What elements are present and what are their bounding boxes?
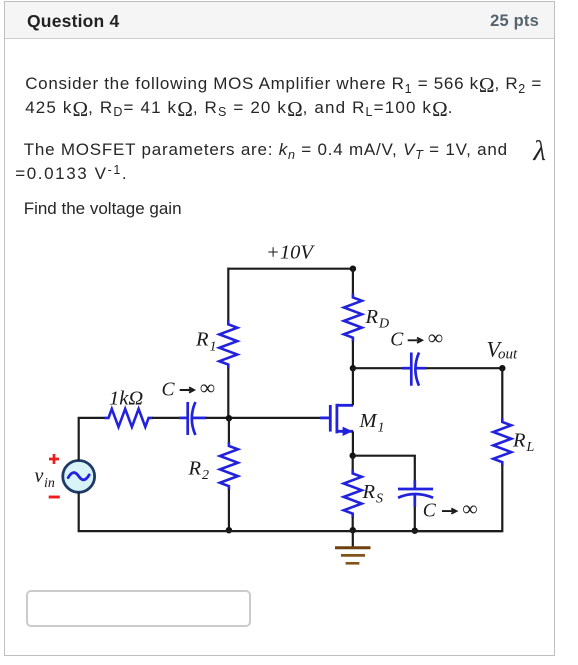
capacitor C input coupling — [179, 402, 207, 435]
label +10V — [266, 242, 315, 264]
svg-text:1: 1 — [378, 421, 385, 436]
wire output cap to Vout — [426, 367, 502, 369]
resistor RS — [352, 456, 354, 470]
svg-text:in: in — [44, 476, 55, 491]
svg-text:R: R — [362, 481, 376, 503]
wire RL bottom — [415, 466, 503, 532]
wire R1 bottom to gate node — [227, 368, 229, 418]
wire Vout to RL — [501, 368, 503, 418]
svg-text:L: L — [526, 440, 535, 455]
label R2 — [188, 458, 210, 484]
wire bypass cap to rail — [414, 507, 416, 532]
svg-text:R: R — [188, 458, 202, 480]
node Vout dot — [499, 365, 505, 371]
resistor 1k ohm — [105, 409, 153, 427]
wire RD branch top — [352, 268, 354, 294]
svg-text:v: v — [35, 465, 44, 487]
svg-text:C: C — [423, 501, 437, 522]
svg-text:∞: ∞ — [463, 497, 478, 521]
wire RS bottom — [352, 517, 354, 531]
label C to infinity (input) — [162, 376, 216, 401]
sine symbol inside vin — [68, 473, 89, 480]
node source junction dot — [350, 453, 356, 459]
resistor R2 — [228, 418, 230, 442]
label R1 — [195, 329, 217, 355]
node ground junction dot — [350, 527, 356, 533]
label C to infinity (output) — [390, 326, 443, 351]
svg-text:+10V: +10V — [266, 242, 315, 264]
wire vin top to gate row corner — [79, 418, 105, 461]
svg-text:C: C — [162, 380, 176, 401]
plus polarity mark — [49, 454, 59, 464]
wire R1 branch top — [227, 268, 229, 321]
label 1k ohm — [109, 388, 143, 410]
resistor RD — [344, 294, 362, 342]
node gate/R1/R2 junction dot — [226, 415, 232, 421]
label RD — [365, 306, 390, 332]
svg-text:1kΩ: 1kΩ — [109, 388, 143, 410]
node VDD junction dot — [350, 266, 356, 272]
transistor M1 — [320, 404, 353, 434]
node bypass rail dot — [412, 528, 418, 534]
wire bottom rail — [79, 492, 503, 531]
source vin circle — [63, 461, 95, 493]
wire source of M1 down — [352, 431, 354, 455]
capacitor C bypass — [398, 480, 433, 507]
resistor RL — [493, 418, 511, 466]
ground — [335, 531, 371, 563]
label vin — [35, 465, 55, 491]
svg-text:∞: ∞ — [200, 376, 215, 400]
svg-text:C: C — [390, 330, 404, 351]
wire source node to bypass branch — [353, 456, 415, 481]
svg-text:∞: ∞ — [428, 326, 443, 350]
wire RD bottom to drain node — [352, 341, 354, 368]
node R2 bottom rail dot — [226, 527, 232, 533]
svg-text:2: 2 — [202, 468, 209, 483]
capacitor C output coupling — [402, 353, 426, 386]
label RL — [512, 430, 535, 456]
resistor R1 — [219, 320, 237, 368]
svg-text:1: 1 — [210, 340, 217, 355]
svg-text:M: M — [359, 410, 379, 432]
svg-text:R: R — [512, 430, 526, 452]
svg-text:out: out — [498, 347, 518, 363]
wire drain to output cap — [353, 367, 402, 369]
svg-text:R: R — [365, 306, 379, 328]
wire 1k to input cap — [152, 417, 180, 419]
wire input cap to gate — [206, 417, 321, 419]
answer input box — [26, 590, 251, 628]
svg-text:R: R — [195, 329, 209, 351]
svg-text:D: D — [378, 317, 389, 332]
label Vout — [487, 337, 519, 363]
label C to infinity (bypass) — [423, 497, 478, 522]
wire top rail +10V — [228, 268, 353, 270]
svg-text:S: S — [376, 492, 383, 507]
minus polarity mark — [49, 496, 60, 499]
wire R2 bottom — [228, 490, 230, 532]
label M1 — [359, 410, 385, 436]
node drain junction dot — [350, 365, 356, 371]
wire drain of M1 up — [352, 368, 354, 405]
label RS — [362, 481, 384, 507]
transistor M1 source arrow — [343, 427, 353, 436]
